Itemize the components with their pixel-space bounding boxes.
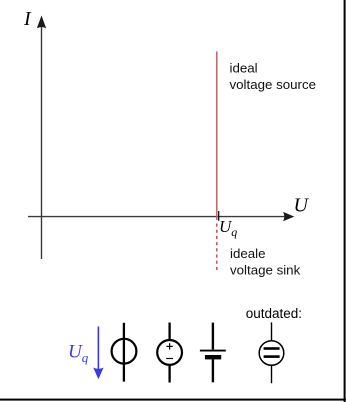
- svg-text:Uq: Uq: [68, 342, 89, 366]
- ideal source characteristic: red solid vertical line: [216, 51, 218, 220]
- voltage source V1 (circle with line through): [112, 323, 137, 382]
- frame right border: [344, 0, 346, 402]
- red dashed continuation (sink): [216, 224, 218, 271]
- frame bottom border: [0, 399, 346, 401]
- svg-text:ideal: ideal: [230, 60, 258, 75]
- U axis arrowhead: [283, 212, 294, 221]
- battery cell B1: [200, 323, 226, 383]
- svg-text:ideale: ideale: [230, 246, 266, 261]
- I axis (vertical): [41, 26, 43, 259]
- outdated DC source symbol (circle with = inside): [259, 322, 284, 383]
- minus sign: [166, 358, 173, 360]
- svg-text:U: U: [294, 195, 310, 217]
- U axis (horizontal): [28, 216, 285, 218]
- voltage source V2 (circle with + and -): [157, 323, 182, 383]
- plus sign: [166, 345, 172, 347]
- I axis arrowhead: [37, 16, 46, 29]
- equals bars: [264, 347, 280, 350]
- long plate: [200, 350, 226, 352]
- svg-text:I: I: [23, 8, 32, 30]
- svg-text:outdated:: outdated:: [246, 306, 302, 321]
- svg-text:voltage sink: voltage sink: [230, 263, 301, 278]
- svg-text:voltage source: voltage source: [230, 77, 316, 92]
- short thick plate: [205, 355, 221, 359]
- svg-text:Uq: Uq: [219, 217, 237, 239]
- tick mark at U_q: [218, 211, 220, 221]
- blue arrow for U_q direction: [97, 327, 99, 372]
